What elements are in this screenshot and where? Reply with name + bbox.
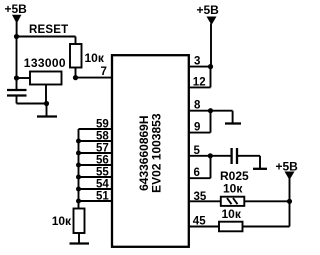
svg-text:12: 12 — [193, 76, 206, 88]
wire pin12 up to pin3 node — [210, 67, 212, 88]
ground GND3 bar — [225, 122, 241, 124]
wire pin 58 — [79, 140, 113, 142]
ground GND4 stub — [259, 156, 261, 169]
ground GND1 stub — [46, 104, 48, 117]
capacitor C1 bottom plate — [7, 94, 27, 96]
node bus pin 51 — [76, 199, 81, 204]
wire R025 right to +5B node — [244, 200, 289, 202]
svg-text:3: 3 — [194, 56, 200, 68]
wire pin 12 — [188, 86, 211, 88]
wire resonator bottom pin — [45, 85, 47, 104]
capacitor C2 right plate — [236, 148, 238, 164]
wire C1 bottom stub — [16, 96, 18, 104]
svg-text:RESET: RESET — [29, 24, 68, 36]
wire pin 6 — [188, 177, 211, 179]
wire left vertical from RESET node down to capacitor — [16, 37, 18, 90]
svg-text:EV02 1003853: EV02 1003853 — [150, 113, 164, 193]
resonator ZQ1 body — [30, 72, 62, 85]
svg-text:10к: 10к — [85, 51, 105, 65]
ground GND3 stub — [232, 111, 234, 124]
wire pin6 up to pin5 node — [210, 156, 212, 178]
power +5B symbol (top right) — [207, 17, 217, 26]
svg-text:45: 45 — [193, 216, 206, 228]
node bus pin 55 — [76, 175, 81, 180]
node bus pin 56 — [76, 163, 81, 168]
wire C1 to ground node — [17, 103, 47, 105]
node pin7 junction — [73, 75, 78, 80]
wire pin 3 — [188, 66, 211, 68]
svg-text:10к: 10к — [52, 214, 72, 228]
svg-text:10к: 10к — [222, 207, 242, 221]
wire pin 59 — [79, 128, 113, 130]
wire pin 45 — [188, 226, 219, 228]
svg-text:+5B: +5B — [5, 2, 28, 16]
wire resonator left pin — [17, 77, 31, 79]
svg-text:59: 59 — [96, 118, 109, 130]
svg-text:51: 51 — [96, 190, 109, 202]
svg-text:54: 54 — [96, 178, 109, 190]
node ground junction — [44, 101, 49, 106]
wire bend down to resistor R1 top — [75, 37, 77, 45]
op IC U1 body — [112, 55, 189, 247]
capacitor C1 top plate — [7, 89, 27, 91]
svg-text:8: 8 — [194, 100, 201, 112]
wire pin 8 — [188, 110, 233, 112]
wire R2 bottom to ground — [78, 233, 80, 244]
wire C2 right to ground — [238, 155, 260, 157]
svg-text:57: 57 — [96, 142, 109, 154]
node bus pin 54 — [76, 187, 81, 192]
power +5B symbol (top left) — [12, 15, 21, 24]
svg-text:55: 55 — [96, 166, 109, 178]
wire pin 56 — [79, 164, 113, 166]
wire pin 7 into IC — [76, 77, 113, 79]
resistor R2 10k body (pull-down) — [74, 209, 85, 234]
wire pin 55 — [79, 176, 113, 178]
power +5B symbol (bottom right) — [285, 172, 295, 181]
svg-text:+5B: +5B — [197, 3, 220, 17]
ground GND4 bar — [253, 168, 267, 170]
capacitor C2 left plate — [230, 148, 232, 164]
svg-text:7: 7 — [101, 66, 107, 78]
node pin5 junction — [208, 153, 213, 158]
svg-text:6: 6 — [194, 167, 200, 179]
node bus pin 58 — [76, 139, 81, 144]
node bus pin 57 — [76, 151, 81, 156]
wire pin 54 — [79, 188, 113, 190]
ground GND1 bar — [37, 115, 57, 117]
node +5B junction (bottom right) — [287, 199, 292, 204]
resistor R3 10k body — [219, 222, 243, 232]
node pin3 junction — [208, 64, 213, 69]
wire pin 5 — [188, 155, 231, 157]
node pin8 junction — [208, 108, 213, 113]
wire pin 51 — [79, 200, 113, 202]
svg-text:35: 35 — [194, 191, 207, 203]
svg-text:5: 5 — [194, 145, 201, 157]
node RESET junction — [14, 34, 19, 39]
wire RESET horizontal to resistor — [17, 36, 76, 38]
resistor R025 slash 2 — [233, 198, 238, 204]
svg-text:9: 9 — [194, 122, 200, 134]
svg-text:58: 58 — [96, 130, 109, 142]
wire +5B down to pin3 node — [210, 24, 212, 67]
svg-text:133000: 133000 — [24, 56, 66, 70]
wire pin9 up to pin8 node — [210, 111, 212, 133]
svg-text:10к: 10к — [223, 182, 243, 196]
resistor R025 slash 1 — [227, 198, 232, 204]
svg-text:56: 56 — [96, 154, 109, 166]
svg-text:+5B: +5B — [276, 160, 299, 174]
wire pin 57 — [79, 152, 113, 154]
wire pin 9 — [188, 132, 211, 134]
wire R3 right to +5B vertical — [243, 226, 290, 228]
wire R1 bottom to pin7 node — [75, 68, 77, 78]
wire +5B down to R3 right — [289, 179, 291, 227]
wire left bus vertical — [78, 129, 80, 209]
resistor R1 10k body — [70, 44, 82, 68]
ground GND2 bar — [70, 242, 90, 244]
wire from +5B down to RESET node — [16, 22, 18, 37]
node resonator left junction — [14, 75, 19, 80]
wire pin 35 — [188, 200, 221, 202]
resistor R025 body — [221, 197, 245, 206]
